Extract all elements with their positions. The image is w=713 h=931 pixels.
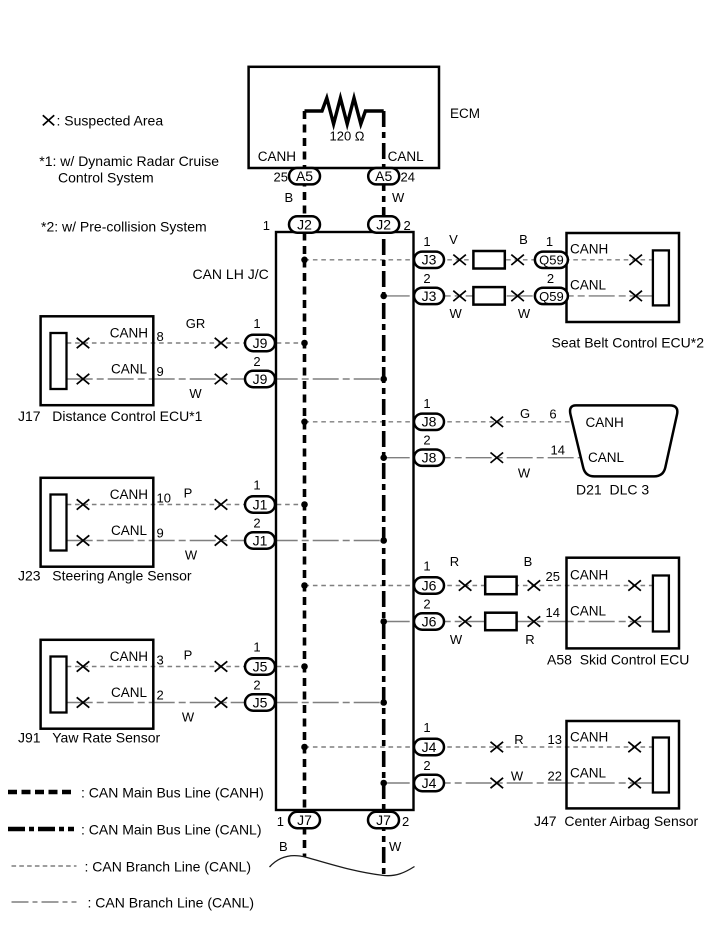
svg-text:V: V <box>449 232 458 247</box>
svg-text:2: 2 <box>253 516 260 531</box>
svg-text:2: 2 <box>253 678 260 693</box>
svg-text:J23 Steering Angle Sensor: J23 Steering Angle Sensor <box>18 568 192 584</box>
svg-text:J6: J6 <box>422 613 437 629</box>
svg-text:J7: J7 <box>297 812 312 828</box>
svg-text:2: 2 <box>402 814 409 829</box>
svg-text:Q59: Q59 <box>539 289 564 304</box>
svg-text:J6: J6 <box>422 577 437 593</box>
svg-text:2: 2 <box>253 354 260 369</box>
svg-text:CANL: CANL <box>111 685 148 700</box>
svg-text:R: R <box>450 554 459 569</box>
svg-text:CAN LH J/C: CAN LH J/C <box>192 266 268 282</box>
svg-text:2: 2 <box>423 758 430 773</box>
svg-text:14: 14 <box>551 443 565 458</box>
svg-text:J3: J3 <box>422 252 437 268</box>
svg-text:CANL: CANL <box>570 278 607 293</box>
svg-text:GR: GR <box>186 316 206 331</box>
svg-text:CANL: CANL <box>111 523 148 538</box>
svg-text:25: 25 <box>546 569 560 584</box>
svg-text:B: B <box>285 190 294 205</box>
svg-text:CANH: CANH <box>586 415 624 430</box>
svg-text:2: 2 <box>423 271 430 286</box>
svg-text:CANH: CANH <box>110 649 148 664</box>
svg-text:CANH: CANH <box>570 568 608 583</box>
svg-text:CANL: CANL <box>388 149 425 164</box>
svg-text:1: 1 <box>423 234 430 249</box>
svg-text:CANH: CANH <box>258 149 296 164</box>
svg-text:A5: A5 <box>296 168 313 184</box>
svg-text:G: G <box>520 406 530 421</box>
svg-text:*1: w/ Dynamic Radar Cruise: *1: w/ Dynamic Radar Cruise <box>39 153 219 169</box>
svg-text:CANL: CANL <box>570 766 607 781</box>
svg-text:Control System: Control System <box>58 170 154 186</box>
svg-text:6: 6 <box>549 407 556 422</box>
svg-text:J8: J8 <box>422 414 437 430</box>
svg-text:W: W <box>450 306 463 321</box>
svg-text:CANH: CANH <box>110 487 148 502</box>
svg-text:J1: J1 <box>253 532 268 548</box>
svg-text:8: 8 <box>157 329 164 344</box>
svg-text:A5: A5 <box>375 168 392 184</box>
svg-text:P: P <box>184 486 193 501</box>
svg-text:2: 2 <box>404 218 411 233</box>
svg-text:J1: J1 <box>253 496 268 512</box>
svg-text:2: 2 <box>423 433 430 448</box>
svg-text:B: B <box>519 232 528 247</box>
svg-text:J9: J9 <box>253 335 268 351</box>
svg-text:J4: J4 <box>422 739 437 755</box>
svg-text:1: 1 <box>263 218 270 233</box>
svg-text:25: 25 <box>274 170 288 185</box>
svg-text:22: 22 <box>548 769 562 784</box>
svg-text:9: 9 <box>157 526 164 541</box>
svg-text:W: W <box>518 306 531 321</box>
svg-text:CANL: CANL <box>570 604 607 619</box>
svg-text:W: W <box>185 548 198 563</box>
svg-text:1: 1 <box>546 234 553 249</box>
svg-text:CANL: CANL <box>111 362 148 377</box>
svg-text:W: W <box>182 710 195 725</box>
svg-text:W: W <box>389 839 402 854</box>
svg-text:W: W <box>189 386 202 401</box>
svg-text:J17 Distance Control ECU*1: J17 Distance Control ECU*1 <box>18 408 203 424</box>
svg-text:J2: J2 <box>376 216 391 232</box>
svg-text:CANH: CANH <box>110 326 148 341</box>
svg-text:J3: J3 <box>422 288 437 304</box>
svg-text:1: 1 <box>423 720 430 735</box>
svg-text:J4: J4 <box>422 775 437 791</box>
svg-text:W: W <box>518 466 531 481</box>
svg-text:120 Ω: 120 Ω <box>329 129 364 144</box>
svg-text:P: P <box>184 648 193 663</box>
svg-text:J47 Center Airbag Sensor: J47 Center Airbag Sensor <box>534 813 699 829</box>
svg-text:1: 1 <box>423 559 430 574</box>
svg-text:1: 1 <box>277 814 284 829</box>
svg-text:: CAN Branch Line (CANL): : CAN Branch Line (CANL) <box>88 895 255 911</box>
svg-text:1: 1 <box>253 316 260 331</box>
svg-text:CANL: CANL <box>588 450 625 465</box>
svg-text:2: 2 <box>157 688 164 703</box>
svg-text:R: R <box>514 732 523 747</box>
svg-text:ECM: ECM <box>450 106 480 121</box>
svg-text:W: W <box>511 769 524 784</box>
svg-text:2: 2 <box>423 597 430 612</box>
svg-text:J8: J8 <box>422 450 437 466</box>
svg-text:: CAN Branch Line (CANL): : CAN Branch Line (CANL) <box>85 859 252 875</box>
svg-text:Seat Belt Control ECU*2: Seat Belt Control ECU*2 <box>552 335 705 351</box>
svg-text:J5: J5 <box>253 658 268 674</box>
svg-text:W: W <box>392 190 405 205</box>
svg-text:J91 Yaw Rate Sensor: J91 Yaw Rate Sensor <box>18 730 160 746</box>
svg-text:13: 13 <box>548 732 562 747</box>
svg-text:B: B <box>279 839 288 854</box>
svg-text:R: R <box>525 632 534 647</box>
svg-text:: CAN Main Bus Line (CANH): : CAN Main Bus Line (CANH) <box>81 785 264 801</box>
svg-text:1: 1 <box>423 396 430 411</box>
svg-text:J7: J7 <box>376 812 391 828</box>
svg-text:*2: w/ Pre-collision System: *2: w/ Pre-collision System <box>41 219 207 235</box>
svg-text:CANH: CANH <box>570 729 608 744</box>
svg-text:10: 10 <box>157 491 171 506</box>
svg-text:D21 DLC 3: D21 DLC 3 <box>576 482 649 498</box>
svg-text:24: 24 <box>401 170 415 185</box>
svg-text:Q59: Q59 <box>539 253 564 268</box>
svg-text:2: 2 <box>547 271 554 286</box>
svg-text:B: B <box>524 554 533 569</box>
svg-text:J2: J2 <box>297 216 312 232</box>
svg-text:J9: J9 <box>253 371 268 387</box>
svg-text:1: 1 <box>253 478 260 493</box>
svg-text:A58 Skid Control ECU: A58 Skid Control ECU <box>547 652 689 668</box>
svg-text:1: 1 <box>253 640 260 655</box>
svg-text:14: 14 <box>546 605 560 620</box>
svg-text:9: 9 <box>157 364 164 379</box>
svg-text:: CAN Main Bus Line (CANL): : CAN Main Bus Line (CANL) <box>81 822 262 838</box>
svg-text:W: W <box>450 632 463 647</box>
svg-text:CANH: CANH <box>570 242 608 257</box>
svg-text:J5: J5 <box>253 694 268 710</box>
svg-text:3: 3 <box>157 653 164 668</box>
svg-text:: Suspected Area: : Suspected Area <box>57 113 164 129</box>
